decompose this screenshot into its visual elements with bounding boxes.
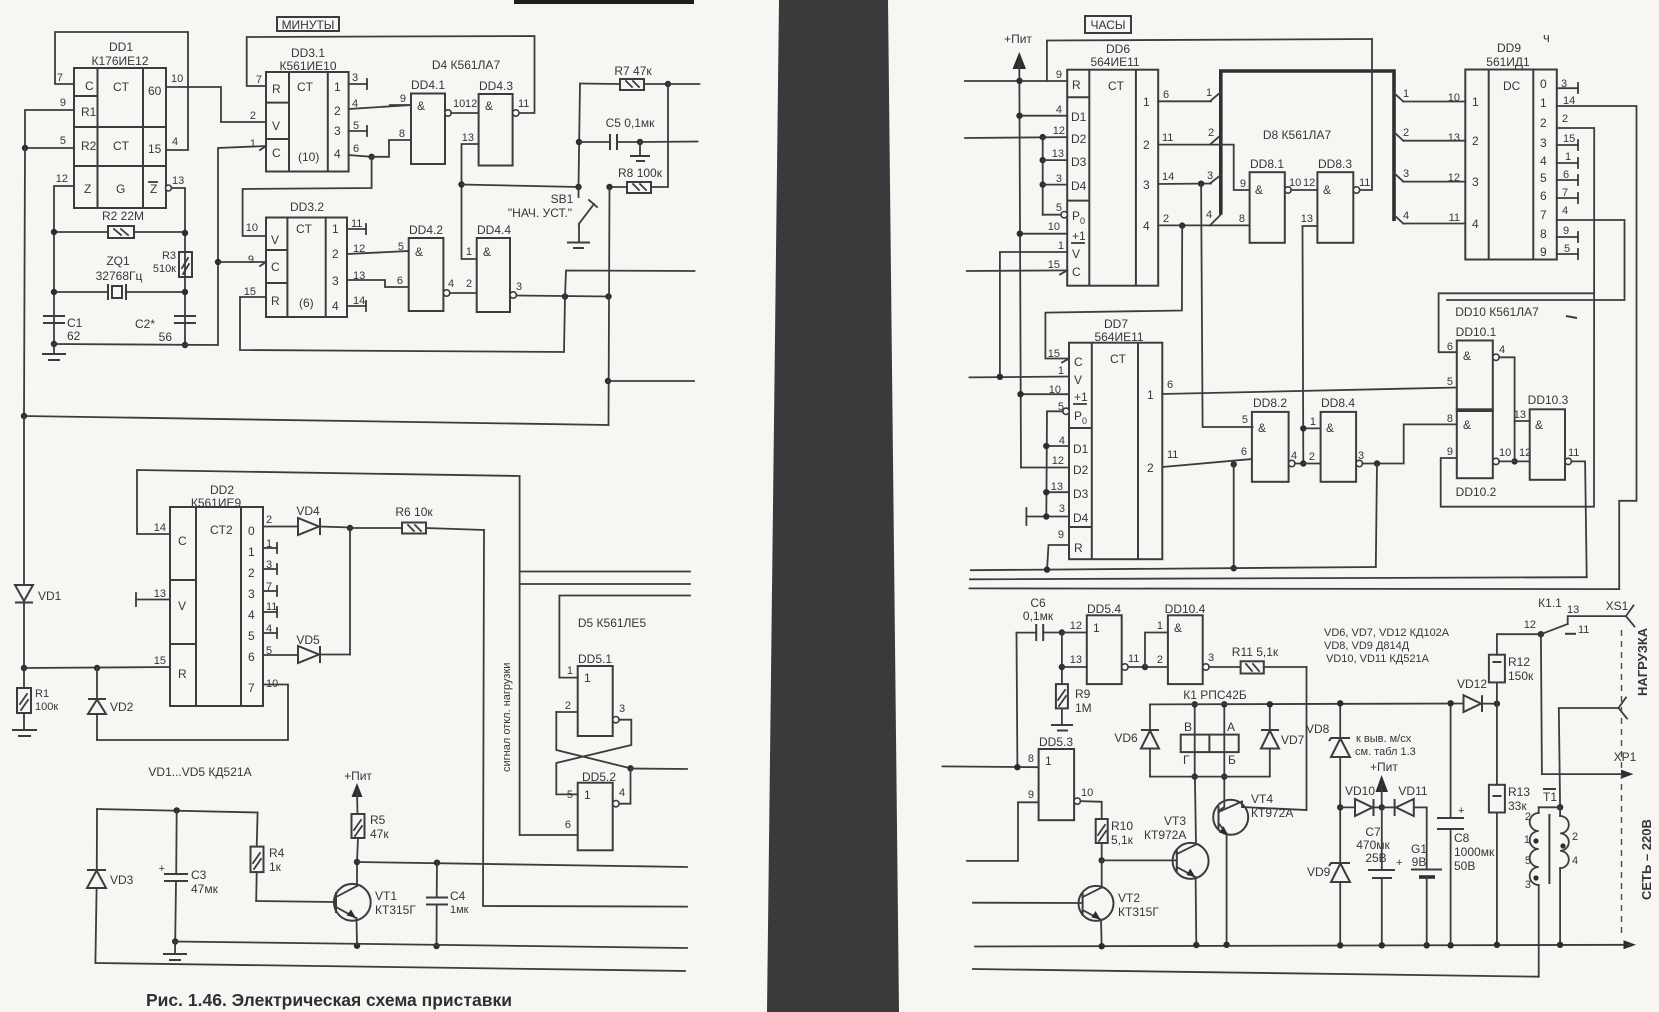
svg-text:5: 5 xyxy=(567,789,573,801)
svg-text:5: 5 xyxy=(248,629,255,643)
wire bus y584 xyxy=(520,583,690,585)
svg-text:НАГРУЗКА: НАГРУЗКА xyxy=(1635,627,1650,696)
svg-text:3: 3 xyxy=(1143,178,1150,192)
gate DD5.4 xyxy=(1070,602,1140,684)
svg-text:КТ972А: КТ972А xyxy=(1251,806,1293,820)
svg-text:&: & xyxy=(415,245,423,259)
svg-text:1: 1 xyxy=(584,788,591,802)
svg-text:&: & xyxy=(417,99,425,113)
svg-text:D8 К561ЛА7: D8 К561ЛА7 xyxy=(1263,128,1332,142)
svg-text:11: 11 xyxy=(1578,624,1589,636)
connector XS1 upper prong xyxy=(1606,599,1635,627)
power arrow left xyxy=(352,783,363,797)
resistor R11 5,1к xyxy=(1209,645,1306,674)
rail bottom to gutter xyxy=(95,963,685,971)
svg-text:D1: D1 xyxy=(1073,442,1089,456)
wire R pin9 from gutter xyxy=(965,80,1067,82)
svg-text:1: 1 xyxy=(1524,834,1530,846)
wire cross-couple X xyxy=(556,712,630,768)
svg-text:VT1: VT1 xyxy=(375,889,397,903)
svg-text:2: 2 xyxy=(1309,451,1315,463)
svg-text:9: 9 xyxy=(1028,789,1034,801)
svg-text:8: 8 xyxy=(399,128,405,140)
svg-text:R9: R9 xyxy=(1075,687,1091,701)
gate DD5.2 xyxy=(565,770,625,850)
wire DD1 pin9 R1 to left bus xyxy=(25,110,74,148)
svg-text:14: 14 xyxy=(1162,171,1174,183)
gate DD8.1 xyxy=(1239,157,1318,243)
svg-text:2: 2 xyxy=(1540,116,1547,130)
svg-text:4: 4 xyxy=(172,136,178,148)
svg-text:D3: D3 xyxy=(1073,487,1089,501)
svg-text:9: 9 xyxy=(1056,69,1062,81)
svg-text:13: 13 xyxy=(462,132,474,144)
svg-text:9: 9 xyxy=(1447,446,1453,458)
svg-text:DD3.1: DD3.1 xyxy=(291,46,325,60)
wire DD6 out3 down to DD8.2 pin5 xyxy=(1201,184,1253,427)
svg-text:P: P xyxy=(1072,209,1080,223)
svg-text:DD8.4: DD8.4 xyxy=(1321,396,1355,410)
svg-text:DD10 К561ЛА7: DD10 К561ЛА7 xyxy=(1455,305,1539,319)
wire R12 to K1.1 common xyxy=(1497,633,1541,635)
wire DD10.1 out down to DD10.3 pin13 xyxy=(1499,357,1514,461)
svg-text:5: 5 xyxy=(60,135,66,147)
wire DD1 pin13 Z-bar column xyxy=(166,185,172,191)
zener VD9 xyxy=(1307,804,1350,948)
svg-text:&: & xyxy=(1463,349,1471,363)
svg-text:Т1: Т1 xyxy=(1543,790,1557,804)
transistor VT1 КТ315Г xyxy=(334,862,416,946)
wire DD1 pin10 to DD3.1 V xyxy=(166,87,266,122)
svg-text:DD5.3: DD5.3 xyxy=(1039,735,1073,749)
svg-text:2: 2 xyxy=(334,104,341,118)
wire DD6 R frame xyxy=(1047,39,1372,81)
svg-text:2: 2 xyxy=(250,110,256,122)
svg-text:DD1: DD1 xyxy=(109,40,133,54)
svg-text:10: 10 xyxy=(1048,221,1060,233)
wire DD5.4 out node to DD10.4 inputs xyxy=(1128,666,1168,668)
switch contact K1.1 xyxy=(1524,596,1626,637)
svg-text:&: & xyxy=(1463,418,1471,432)
node dots ground rail xyxy=(1099,943,1105,949)
svg-text:C: C xyxy=(271,260,280,274)
svg-text:VD9: VD9 xyxy=(1307,865,1331,879)
svg-text:7: 7 xyxy=(1540,208,1547,222)
svg-text:DD10.3: DD10.3 xyxy=(1528,393,1569,407)
wire DD6 out1 pin6 xyxy=(1158,100,1211,102)
wire bus y571 xyxy=(520,571,690,573)
svg-text:10: 10 xyxy=(266,678,278,690)
svg-text:ZQ1: ZQ1 xyxy=(106,254,130,268)
svg-text:3: 3 xyxy=(1540,136,1547,150)
wire DD3.2 out2 pin12 to DD4.2 pin5 xyxy=(347,251,409,254)
wire node to DD4.1 pin8 xyxy=(372,140,411,157)
wire X node to gutter xyxy=(631,768,688,771)
svg-text:6: 6 xyxy=(1167,379,1173,391)
stub DD9 out9 pin5 xyxy=(1557,249,1578,259)
rail relay bottom xyxy=(1150,776,1270,778)
svg-text:10: 10 xyxy=(171,73,183,85)
svg-text:1: 1 xyxy=(332,222,339,236)
svg-text:50В: 50В xyxy=(1454,859,1475,873)
wire set node to SB1 xyxy=(462,185,579,188)
svg-text:R2: R2 xyxy=(81,139,97,153)
svg-text:0: 0 xyxy=(1540,77,1547,91)
svg-text:D2: D2 xyxy=(1073,463,1089,477)
label box МИНУТЫ xyxy=(277,17,339,32)
wire DD8.4 out to DD10.2 pin8 and bus1 end xyxy=(1363,424,1457,463)
bus bold collector DD6 outputs xyxy=(1221,71,1394,221)
rail positive top (VD3 C3 R4) xyxy=(97,809,258,813)
ground at R1 xyxy=(12,730,37,736)
svg-text:DD8.3: DD8.3 xyxy=(1318,157,1352,171)
svg-text:VD10: VD10 xyxy=(1345,784,1375,798)
svg-text:0: 0 xyxy=(248,524,255,538)
svg-text:+1: +1 xyxy=(1074,390,1088,404)
svg-text:12: 12 xyxy=(56,173,68,185)
svg-text:D3: D3 xyxy=(1071,155,1087,169)
svg-text:DD6: DD6 xyxy=(1106,42,1130,56)
svg-text:8: 8 xyxy=(1239,213,1245,225)
resistor R4 1к xyxy=(251,813,285,902)
wire DD1 pin5 R2 xyxy=(25,147,74,149)
svg-text:Рис. 1.46. Электрическая схема: Рис. 1.46. Электрическая схема приставки xyxy=(146,990,512,1010)
svg-text:8: 8 xyxy=(1540,227,1547,241)
bus tap 3 xyxy=(1210,175,1221,184)
svg-text:R13: R13 xyxy=(1508,785,1530,799)
svg-text:2: 2 xyxy=(1208,127,1214,139)
stub DD9 out3 pin15 xyxy=(1557,140,1578,150)
counter DD7 564ИЕ11 xyxy=(1048,317,1179,559)
rail bottom mains xyxy=(973,969,1539,977)
svg-text:2: 2 xyxy=(1143,138,1150,152)
svg-text:13: 13 xyxy=(1052,148,1064,160)
svg-text:4: 4 xyxy=(1056,104,1062,116)
svg-text:R2 22М: R2 22М xyxy=(102,209,144,223)
svg-text:3: 3 xyxy=(1525,879,1531,891)
svg-text:C4: C4 xyxy=(450,889,466,903)
svg-text:2: 2 xyxy=(1472,134,1479,148)
svg-text:CT: CT xyxy=(113,80,130,94)
wire DD7 D4 pin3 + stub xyxy=(1026,516,1069,518)
svg-text:510к: 510к xyxy=(153,263,176,275)
svg-text:100к: 100к xyxy=(35,701,58,713)
wire DD3.1 out4 pin6 node xyxy=(349,155,372,157)
svg-text:1: 1 xyxy=(1058,365,1064,377)
diode VD6 xyxy=(1114,704,1159,776)
svg-text:VD12: VD12 xyxy=(1457,677,1487,691)
svg-text:G: G xyxy=(116,182,125,196)
svg-text:C8: C8 xyxy=(1454,831,1470,845)
svg-text:1: 1 xyxy=(1403,88,1409,100)
svg-text:3: 3 xyxy=(1207,170,1213,182)
wire DD6 +1 pin10 xyxy=(1020,233,1067,235)
svg-text:13: 13 xyxy=(172,175,184,187)
svg-text:&: & xyxy=(1323,183,1331,197)
svg-text:7: 7 xyxy=(248,681,255,695)
counter IC DD1 K176ИЕ12 xyxy=(56,40,185,208)
svg-text:VD8: VD8 xyxy=(1306,722,1330,736)
svg-text:D2: D2 xyxy=(1071,132,1087,146)
wire DD7 out2 pin11 to DD8.2 pin6 xyxy=(1162,459,1252,467)
svg-text:4: 4 xyxy=(248,608,255,622)
wire DD1 pin7 C feedback frame xyxy=(55,32,188,150)
ground at C3 xyxy=(163,942,187,961)
bus tap 4 xyxy=(1210,215,1221,226)
svg-text:2: 2 xyxy=(266,514,272,526)
gate DD5.1 xyxy=(565,652,625,736)
svg-text:47к: 47к xyxy=(370,827,389,841)
wire power to DD7 D2 pin12 xyxy=(1021,467,1069,469)
svg-text:12: 12 xyxy=(1052,455,1064,467)
svg-text:60: 60 xyxy=(148,84,162,98)
svg-text:9: 9 xyxy=(248,254,254,266)
wire VD2 loop to DD2 pin10 xyxy=(97,685,288,741)
svg-text:DD10.4: DD10.4 xyxy=(1165,602,1206,616)
svg-text:3: 3 xyxy=(334,124,341,138)
svg-text:CT: CT xyxy=(1108,79,1125,93)
svg-text:4: 4 xyxy=(1403,210,1409,222)
gate DD10.2 xyxy=(1447,409,1531,499)
svg-text:12: 12 xyxy=(1303,177,1315,189)
wire DD6 out4 to DD7 C frame xyxy=(1045,226,1182,359)
node DD5.4 pin13/R9 xyxy=(1061,633,1063,685)
svg-text:ч: ч xyxy=(1543,30,1550,45)
rail emitter/ground to gutter xyxy=(175,942,687,949)
svg-text:V: V xyxy=(1072,247,1080,261)
svg-text:8: 8 xyxy=(1447,413,1453,425)
wire DD6 out2 pin11 to DD8.1 pin9 xyxy=(1158,145,1249,190)
gate DD10.3 xyxy=(1514,393,1580,480)
svg-text:0: 0 xyxy=(1080,216,1085,226)
svg-text:D4 К561ЛА7: D4 К561ЛА7 xyxy=(432,58,501,72)
stub DD2 V pin13 xyxy=(136,593,170,606)
svg-text:VD8, VD9 Д814Д: VD8, VD9 Д814Д xyxy=(1324,640,1410,652)
svg-text:C2*: C2* xyxy=(135,317,155,331)
svg-text:&: & xyxy=(1535,418,1543,432)
wire R8 node vertical down xyxy=(609,187,610,425)
wire DD7 R pin9 to bus1 xyxy=(1047,545,1069,570)
wire left bus vertical xyxy=(24,148,25,416)
wire DD6 D2 pin12 from gutter xyxy=(965,136,1067,139)
wire DD6 D1 pin4 xyxy=(1020,115,1068,117)
svg-text:VD2: VD2 xyxy=(110,700,134,714)
svg-text:CT: CT xyxy=(113,139,130,153)
svg-text:2: 2 xyxy=(1157,654,1163,666)
svg-text:DD4.3: DD4.3 xyxy=(479,79,513,93)
svg-text:DD4.2: DD4.2 xyxy=(409,223,443,237)
svg-text:Z: Z xyxy=(84,182,91,196)
wire DD7 out1 pin6 to DD10.1 pin5 xyxy=(1162,388,1457,395)
resistor R13 33к xyxy=(1489,704,1530,948)
svg-text:VD10, VD11 КД521А: VD10, VD11 КД521А xyxy=(1326,653,1430,665)
diode VD12 xyxy=(1457,677,1497,712)
node VD12/R12/R13 xyxy=(1494,701,1500,707)
svg-text:1: 1 xyxy=(1143,95,1150,109)
svg-text:4: 4 xyxy=(1572,855,1578,867)
ground at C5 xyxy=(630,142,650,161)
svg-text:561ИД1: 561ИД1 xyxy=(1486,55,1530,69)
svg-text:Z: Z xyxy=(150,182,157,196)
battery G1 9В xyxy=(1411,807,1442,948)
svg-text:КТ972А: КТ972А xyxy=(1144,828,1186,842)
wire node to DD3.2 V pin10 xyxy=(243,157,372,236)
svg-text:СЕТЬ – 220В: СЕТЬ – 220В xyxy=(1639,819,1654,900)
svg-text:15: 15 xyxy=(1563,133,1575,145)
svg-text:11: 11 xyxy=(1162,132,1173,144)
svg-text:6: 6 xyxy=(248,650,255,664)
svg-text:6: 6 xyxy=(1241,446,1247,458)
svg-text:G1: G1 xyxy=(1411,842,1427,856)
svg-text:R7 47к: R7 47к xyxy=(614,64,652,78)
svg-text:R: R xyxy=(178,667,187,681)
svg-text:4: 4 xyxy=(1291,450,1297,462)
gate DD8.4 xyxy=(1309,396,1364,482)
svg-text:C: C xyxy=(272,146,281,160)
svg-text:C3: C3 xyxy=(191,868,207,882)
crystal ZQ1 32768Гц xyxy=(51,254,188,300)
wire DD4.3 pin13 to set node xyxy=(462,144,479,259)
decoder DD9 561ИД1 xyxy=(1448,30,1576,260)
svg-text:D1: D1 xyxy=(1071,110,1087,124)
svg-text:+Пит: +Пит xyxy=(1370,760,1398,774)
svg-text:564ИЕ11: 564ИЕ11 xyxy=(1090,55,1139,69)
svg-text:1: 1 xyxy=(1058,240,1064,252)
svg-text:CT2: CT2 xyxy=(210,523,233,537)
svg-text:150к: 150к xyxy=(1508,669,1534,683)
cropped header bar top left page xyxy=(514,0,694,4)
svg-text:DD10.1: DD10.1 xyxy=(1456,325,1497,339)
svg-text:C5 0,1мк: C5 0,1мк xyxy=(606,116,656,130)
svg-text:3: 3 xyxy=(248,587,255,601)
svg-text:47мк: 47мк xyxy=(191,882,219,896)
svg-text:10: 10 xyxy=(246,222,258,234)
wire DD7 P0 pin5 bubble to D1 xyxy=(1063,408,1069,414)
stub DD9 out8 pin9 xyxy=(1557,232,1578,242)
wire DD5.3 pin9 from gutter rail xyxy=(967,802,1039,861)
wire to DD3.2 C pin9 xyxy=(218,261,266,263)
resistor R5 47к xyxy=(352,813,390,862)
node branch to gutter xyxy=(605,378,611,384)
wire DD3.1 out2 pin4 to DD4.1 xyxy=(349,105,411,109)
page gutter shadow xyxy=(767,0,899,1012)
svg-text:56: 56 xyxy=(159,330,173,344)
svg-text:R12: R12 xyxy=(1508,655,1530,669)
svg-text:3: 3 xyxy=(1056,173,1062,185)
svg-text:1: 1 xyxy=(1157,620,1163,632)
capacitor C6 0,1мк xyxy=(1017,596,1062,641)
resistor R2 22М xyxy=(51,209,188,238)
svg-text:10: 10 xyxy=(1499,447,1511,459)
stub DD9 out0 pin3 xyxy=(1557,83,1578,93)
diode VD5 xyxy=(263,528,350,663)
svg-text:4: 4 xyxy=(448,278,454,290)
svg-text:1: 1 xyxy=(1310,416,1316,428)
svg-text:&: & xyxy=(1174,621,1182,635)
svg-text:R1: R1 xyxy=(35,688,49,700)
svg-text:А: А xyxy=(1227,720,1235,734)
ground at R9 xyxy=(1051,725,1073,731)
gate DD4.4 xyxy=(466,223,522,312)
bus1 horizontal xyxy=(971,567,1376,570)
wire DD5.1 pin2 xyxy=(556,711,577,713)
svg-text:10: 10 xyxy=(1289,177,1301,189)
svg-text:12: 12 xyxy=(1053,125,1065,137)
svg-text:62: 62 xyxy=(67,329,81,343)
svg-text:C: C xyxy=(1074,355,1083,369)
svg-text:R5: R5 xyxy=(370,813,386,827)
svg-text:2: 2 xyxy=(332,247,339,261)
stub DD9 out4 pin1 xyxy=(1557,158,1578,168)
gate DD5.3 xyxy=(1028,735,1093,820)
svg-text:V: V xyxy=(178,599,186,613)
svg-text:25В: 25В xyxy=(1365,851,1386,865)
svg-text:(6): (6) xyxy=(299,296,314,310)
svg-text:К1.1: К1.1 xyxy=(1538,596,1562,610)
wire DD3.1 R pin7 top frame to DD4.3 out xyxy=(247,36,535,113)
wire DD5.3 out to R10 xyxy=(1081,801,1102,819)
svg-text:11: 11 xyxy=(1568,447,1579,459)
svg-text:P: P xyxy=(1074,409,1082,423)
svg-text:МИНУТЫ: МИНУТЫ xyxy=(282,18,335,32)
svg-text:R: R xyxy=(1074,541,1083,555)
wire DD6 P0 pin5 bubble xyxy=(1043,214,1061,216)
svg-text:R: R xyxy=(1072,78,1081,92)
wire DD9 in4 + tap xyxy=(1403,223,1465,225)
svg-text:9В: 9В xyxy=(1412,855,1427,869)
node set line xyxy=(458,181,464,187)
svg-text:6: 6 xyxy=(565,819,571,831)
svg-text:DD5.1: DD5.1 xyxy=(578,652,612,666)
wire crystal net to DD3 clock column xyxy=(54,146,266,345)
svg-text:6: 6 xyxy=(353,143,359,155)
wire DD9 in2 + tap xyxy=(1403,140,1465,142)
svg-text:13: 13 xyxy=(1514,409,1526,421)
svg-text:6: 6 xyxy=(1447,341,1453,353)
capacitor C8 1000мк 50В xyxy=(1437,700,1495,948)
svg-text:R6 10к: R6 10к xyxy=(395,505,433,519)
svg-text:11: 11 xyxy=(1449,212,1460,224)
rail collector to gutter xyxy=(357,862,687,867)
svg-text:4: 4 xyxy=(619,787,625,799)
svg-text:4: 4 xyxy=(1499,344,1505,356)
svg-text:10: 10 xyxy=(453,98,465,110)
stub DD9 out6 pin7 xyxy=(1557,193,1578,203)
ground at C1 xyxy=(42,344,66,360)
svg-text:К561ИЕ10: К561ИЕ10 xyxy=(280,59,337,73)
capacitor C3 47мк xyxy=(159,807,219,945)
svg-text:VD6, VD7, VD12 КД102А: VD6, VD7, VD12 КД102А xyxy=(1324,627,1450,639)
node VD4/VD5 xyxy=(347,525,353,531)
svg-text:14: 14 xyxy=(154,522,166,534)
switch SB1 НАЧ. УСТ. xyxy=(508,184,597,248)
rail ground main xyxy=(975,945,1628,947)
svg-text:"НАЧ. УСТ.": "НАЧ. УСТ." xyxy=(508,206,572,220)
svg-text:1: 1 xyxy=(1045,754,1052,768)
svg-text:2: 2 xyxy=(1572,831,1578,843)
svg-text:R10: R10 xyxy=(1111,819,1133,833)
wire DD7 out2 branch to bus1 xyxy=(1233,464,1235,568)
wire DD7 V pin1 from gutter xyxy=(970,376,1070,379)
wire DD3.2 R pin15 bottom loop to DD4.4 out node xyxy=(240,297,565,353)
gate DD4.2 xyxy=(397,223,477,311)
diode VD3 xyxy=(87,809,134,963)
svg-text:К176ИЕ12: К176ИЕ12 xyxy=(92,54,149,68)
power arrow small xyxy=(1376,775,1389,792)
svg-text:9: 9 xyxy=(60,97,66,109)
svg-text:6: 6 xyxy=(1540,189,1547,203)
counter DD6 564ИЕ11 xyxy=(1048,42,1175,286)
